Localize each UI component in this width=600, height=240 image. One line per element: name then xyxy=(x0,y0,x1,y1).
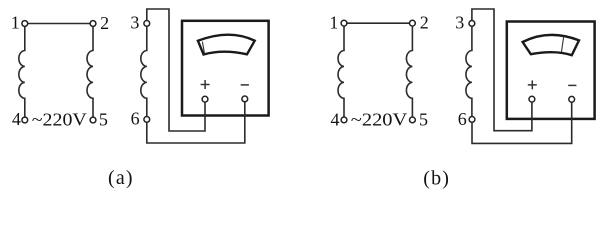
terminal node 4 a xyxy=(22,117,28,123)
meter box PV-a xyxy=(182,21,269,116)
wire: terminal 3 to meter + b xyxy=(472,9,532,131)
meter - terminal b xyxy=(569,96,575,102)
wire top: node 1 to node 2 xyxy=(25,23,93,25)
svg-text:(b): (b) xyxy=(423,167,450,189)
terminal node 3 a xyxy=(144,21,150,27)
wire: terminal 6 to meter - b xyxy=(472,99,572,143)
terminal node 1 b xyxy=(341,20,347,26)
meter dial scale b xyxy=(523,35,579,55)
plus sign b xyxy=(528,80,537,89)
terminal node 5 b xyxy=(410,117,416,123)
winding L2b (primary right, terminals 2-5) xyxy=(406,23,412,120)
meter - terminal a xyxy=(242,96,248,102)
svg-text:~220V: ~220V xyxy=(32,110,87,130)
svg-text:5: 5 xyxy=(419,110,428,130)
wire: terminal 6 to meter - xyxy=(147,99,245,143)
svg-text:6: 6 xyxy=(131,109,140,129)
winding L3b (secondary, terminals 3-6) xyxy=(466,23,472,119)
minus sign b xyxy=(568,84,576,86)
svg-text:1: 1 xyxy=(329,12,338,32)
winding L1b (primary left, terminals 1-4) xyxy=(338,23,344,120)
meter dial scale a xyxy=(198,35,255,55)
winding L2a (primary right, terminals 2-5) xyxy=(87,24,93,121)
plus sign a xyxy=(201,80,210,89)
svg-text:4: 4 xyxy=(331,110,340,130)
meter + terminal b xyxy=(529,96,535,102)
terminal node 4 b xyxy=(341,117,347,123)
terminal node 2 b xyxy=(410,20,416,26)
wire: terminal 3 to meter + xyxy=(147,9,205,131)
meter needle a (deflected left) xyxy=(202,42,204,55)
svg-text:5: 5 xyxy=(99,110,108,130)
wire top: node 1 to node 2 b xyxy=(344,22,412,24)
terminal node 1 a xyxy=(22,21,28,27)
terminal node 3 b xyxy=(469,21,475,27)
svg-text:(a): (a) xyxy=(108,167,134,189)
svg-text:6: 6 xyxy=(458,109,467,129)
svg-text:4: 4 xyxy=(12,109,21,129)
terminal node 6 b xyxy=(469,117,475,123)
svg-text:~220V: ~220V xyxy=(351,110,408,130)
meter + terminal a xyxy=(202,96,208,102)
minus sign a xyxy=(241,84,249,86)
winding L3a (secondary, terminals 3-6) xyxy=(141,23,147,119)
svg-text:3: 3 xyxy=(455,13,464,33)
terminal node 5 a xyxy=(90,117,96,123)
svg-text:1: 1 xyxy=(11,13,20,33)
svg-text:3: 3 xyxy=(130,13,139,33)
svg-text:2: 2 xyxy=(420,13,429,33)
terminal node 2 a xyxy=(90,21,96,27)
winding L1a (primary left, terminals 1-4) xyxy=(19,24,25,121)
meter needle b (deflected right) xyxy=(561,36,563,52)
svg-text:2: 2 xyxy=(100,13,109,33)
terminal node 6 a xyxy=(144,117,150,123)
meter box PV-b xyxy=(507,22,595,119)
